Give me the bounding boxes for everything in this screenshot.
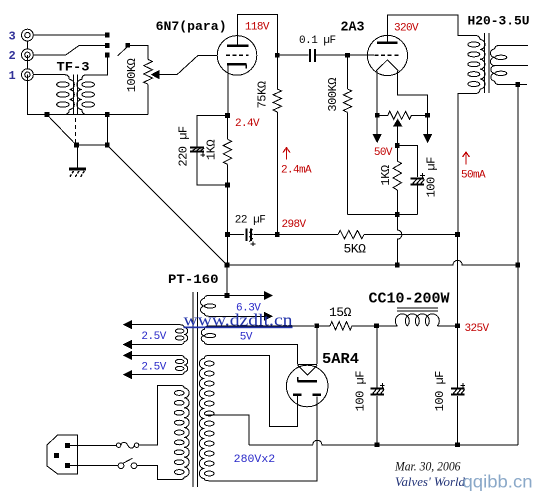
wire 2.5V-2 bottom bbox=[131, 374, 180, 376]
junction selector contact 2 bbox=[105, 43, 110, 48]
junction ground rail left end bbox=[225, 263, 230, 268]
label 1K 2A3 bbox=[379, 165, 393, 185]
label CC10-200W bbox=[369, 290, 450, 307]
wire cathode net to ground rail hop over 5K wire bbox=[397, 217, 402, 263]
wire grid node to 300K bbox=[347, 58, 349, 89]
heater arrow 6.3V bottom bbox=[264, 313, 272, 321]
5AR4 anode left bbox=[293, 394, 302, 396]
svg-text:100KΩ: 100KΩ bbox=[125, 58, 139, 92]
fuse bbox=[116, 442, 138, 448]
wire 6.3V top to arrow bbox=[209, 295, 264, 297]
svg-text:100 µF: 100 µF bbox=[433, 371, 447, 412]
svg-text:325V: 325V bbox=[465, 323, 490, 335]
wire 15R to filter node bbox=[352, 325, 374, 327]
wire pot bottom bbox=[147, 84, 149, 114]
wire HV top to 5AR4 left anode bbox=[209, 355, 297, 426]
TF-3 primary winding bbox=[57, 75, 75, 115]
svg-text:2.5V: 2.5V bbox=[141, 362, 166, 374]
svg-text:100 µF: 100 µF bbox=[425, 157, 439, 198]
wire 5V top to rectifier output node bbox=[209, 325, 314, 327]
label 100uF 2A3 bbox=[425, 157, 439, 198]
junction rectifier output node bbox=[314, 323, 319, 328]
PT core bbox=[193, 292, 198, 487]
label 2.4mA bbox=[281, 165, 312, 177]
svg-text:Valves' World: Valves' World bbox=[395, 475, 466, 489]
capacitor 0.1uF bbox=[310, 49, 315, 62]
junction ground node TF-3 bbox=[105, 143, 110, 148]
input jack 2 bbox=[22, 49, 34, 61]
OPT secondary winding bbox=[490, 45, 506, 84]
svg-text:qqibb.cn: qqibb.cn bbox=[463, 472, 533, 492]
wire wiper to 6N7 grid bbox=[159, 55, 218, 74]
wire choke to 325V node bbox=[437, 325, 455, 327]
label H20-3.5U bbox=[468, 13, 530, 28]
5AR4 filament bbox=[298, 365, 317, 376]
TF-3 secondary winding bbox=[77, 75, 95, 115]
capacitor 22uF bbox=[247, 228, 256, 246]
wire ground right riser bbox=[517, 267, 519, 445]
watermark www.dzdlt.cn bbox=[184, 311, 294, 330]
input jack 1 bbox=[22, 69, 34, 81]
wire ground return rail hop over right anode bbox=[249, 440, 518, 445]
wire 1K bottom bbox=[227, 164, 229, 182]
svg-text:298V: 298V bbox=[282, 219, 307, 231]
wire 22uF left bbox=[230, 234, 244, 236]
capacitor filter 100uF 2 bbox=[451, 383, 465, 395]
wire 5V bottom to 5AR4 filament bbox=[209, 345, 298, 365]
wire 50V node to bypass cap bbox=[400, 146, 418, 177]
junction TF-3 secondary bottom bbox=[105, 112, 110, 117]
junction 2A3 grid node bbox=[345, 53, 350, 58]
label input 3 bbox=[9, 30, 16, 44]
tube 5AR4 envelope bbox=[286, 365, 328, 407]
wire OPT primary bottom to B+ bbox=[458, 94, 475, 233]
label 118V bbox=[245, 21, 270, 33]
heater arrow 6.3V top bbox=[264, 292, 272, 300]
svg-text:100 µF: 100 µF bbox=[353, 371, 367, 412]
hum balance pot bbox=[380, 111, 426, 119]
filament arrow 2.5V-1 top bbox=[124, 321, 132, 329]
wire ground diagonal to rail bbox=[109, 146, 227, 264]
wire OPT secondary tap top bbox=[500, 44, 528, 46]
wire rectifier node to 15R bbox=[319, 325, 330, 327]
wire 5K to B+ node bbox=[364, 234, 455, 236]
wire coupling cap to 2A3 grid node bbox=[316, 54, 345, 56]
wire 50V node to 1K bbox=[396, 148, 398, 161]
label 50V bbox=[374, 147, 393, 159]
svg-text:1KΩ: 1KΩ bbox=[379, 165, 393, 185]
annotation date bbox=[394, 459, 461, 473]
svg-text:Mar. 30, 2006: Mar. 30, 2006 bbox=[394, 459, 461, 473]
wire 6N7 cathode lead bbox=[227, 66, 229, 114]
junction selector contact 1 bbox=[105, 53, 110, 58]
junction ground rail right bbox=[515, 263, 520, 268]
junction OPT secondary common bbox=[515, 82, 520, 87]
wire plate node to 75K bbox=[276, 58, 278, 89]
svg-text:220 µF: 220 µF bbox=[177, 126, 191, 167]
resistor 5K bbox=[338, 230, 364, 238]
wire input 3 to selector bbox=[33, 34, 105, 36]
wire filter cap 1 top lead bbox=[376, 328, 378, 387]
junction selector pivot bbox=[125, 43, 130, 48]
annotation arrow 50mA bbox=[463, 152, 470, 165]
svg-text:75KΩ: 75KΩ bbox=[256, 81, 270, 108]
label 2A3 bbox=[341, 19, 365, 35]
wire TF-3 secondary bottom to ground node bbox=[106, 117, 108, 144]
2A3 filament bbox=[376, 60, 398, 71]
wire OPT secondary common to ground rail bbox=[517, 87, 519, 263]
svg-text:www.dzdlt.cn: www.dzdlt.cn bbox=[184, 311, 294, 330]
resistor 75K bbox=[273, 89, 281, 112]
5AR4 anode right bbox=[312, 394, 321, 396]
junction 6N7 plate node bbox=[275, 53, 280, 58]
wire cathode node to 1K bbox=[227, 118, 229, 139]
wire 6.3V bottom to arrow bbox=[209, 315, 264, 317]
svg-text:CC10-200W: CC10-200W bbox=[369, 290, 450, 307]
label 2.5V second bbox=[141, 362, 166, 374]
svg-text:5KΩ: 5KΩ bbox=[344, 241, 367, 256]
tube 2A3 envelope bbox=[367, 35, 407, 75]
wire 75K to 298V node bbox=[276, 112, 278, 232]
capacitor 100uF 2A3 bbox=[411, 173, 425, 184]
junction 298V node bbox=[275, 232, 280, 237]
wire plug neutral to switch bbox=[70, 465, 118, 467]
wire 6N7 plate to top rail bbox=[238, 14, 278, 52]
label PT-160 bbox=[168, 272, 219, 287]
svg-text:2A3: 2A3 bbox=[341, 19, 365, 35]
wire TF-3 bottom bus bbox=[46, 114, 148, 116]
hum pot wiper arrow bbox=[394, 120, 402, 127]
svg-text:3: 3 bbox=[9, 30, 16, 44]
label 325V bbox=[465, 323, 490, 335]
capacitor 220uF bbox=[190, 148, 205, 158]
label 100K bbox=[125, 58, 139, 92]
potentiometer 100K bbox=[144, 59, 153, 84]
svg-text:2: 2 bbox=[9, 49, 16, 63]
label input 1 bbox=[9, 69, 16, 83]
wire ground rail bbox=[229, 260, 515, 265]
OPT core bbox=[485, 33, 490, 93]
label 100uF filter 1 bbox=[353, 371, 367, 412]
wire 2A3 filament right bbox=[397, 71, 427, 113]
selector switch arm bbox=[118, 47, 127, 56]
wire primary top to fuse bbox=[139, 385, 180, 445]
svg-text:2.4V: 2.4V bbox=[235, 118, 260, 130]
svg-text:280Vx2: 280Vx2 bbox=[234, 454, 276, 466]
label 15R bbox=[329, 305, 352, 320]
wire 1K to cathode net bbox=[396, 190, 398, 212]
wire cathode column bbox=[227, 187, 229, 232]
2A3 grid bbox=[375, 54, 399, 56]
wire 2A3 filament left bbox=[376, 71, 378, 113]
capacitor filter 100uF 1 bbox=[370, 383, 384, 395]
junction 6N7 cathode node bbox=[225, 113, 230, 118]
junction B+ 325V node bbox=[455, 323, 460, 328]
PT 2.5V winding 1 bbox=[175, 325, 188, 345]
label 6.3V bbox=[236, 302, 261, 314]
svg-text:320V: 320V bbox=[394, 22, 419, 34]
wire HV bottom to 5AR4 right anode bbox=[209, 396, 317, 481]
svg-text:1KΩ: 1KΩ bbox=[205, 140, 219, 160]
wire cathode net bottom bbox=[348, 214, 418, 216]
wire ground rail to heater winding bbox=[226, 267, 228, 293]
annotation arrow 2.4mA bbox=[283, 148, 290, 160]
label 2.4V bbox=[235, 118, 260, 130]
wire ground link bbox=[79, 144, 105, 146]
power switch bbox=[118, 458, 137, 468]
svg-text:300KΩ: 300KΩ bbox=[326, 78, 340, 112]
watermark qqibb.cn bbox=[463, 472, 533, 492]
label 75K bbox=[256, 81, 270, 108]
label 22uF bbox=[235, 214, 266, 226]
tube 6N7 envelope bbox=[217, 36, 257, 76]
junction 2A3 filament left bbox=[375, 113, 380, 118]
junction ground rail 2A3 return bbox=[395, 263, 400, 268]
capacitor 220uF branch wires bbox=[197, 115, 225, 185]
TF-3 core bbox=[74, 75, 78, 116]
svg-text:PT-160: PT-160 bbox=[168, 272, 219, 287]
wire primary bottom to switch bbox=[137, 466, 180, 480]
resistor 15R bbox=[330, 322, 352, 330]
wire TF-3 primary bottom diagonal to ground bbox=[49, 116, 76, 144]
PT primary winding bbox=[174, 385, 189, 479]
label input 2 bbox=[9, 49, 16, 63]
svg-text:5V: 5V bbox=[240, 332, 253, 344]
junction heater winding top bbox=[225, 293, 230, 298]
wire 2A3 plate to OPT primary bbox=[388, 15, 481, 43]
label 5K bbox=[344, 241, 367, 256]
label 5AR4 bbox=[322, 351, 359, 368]
junction 50V node bbox=[395, 143, 400, 148]
wire 300K to cathode net bbox=[347, 112, 349, 214]
junction selector contact 3 bbox=[105, 33, 110, 38]
label 298V bbox=[282, 219, 307, 231]
PT 5V winding bbox=[201, 326, 215, 345]
PT HV winding bbox=[199, 355, 214, 480]
junction cathode net bbox=[395, 212, 400, 217]
junction filter cap 1 top bbox=[374, 323, 379, 328]
svg-text:H20-3.5U: H20-3.5U bbox=[468, 13, 530, 28]
6N7 grid bbox=[226, 54, 249, 56]
6N7 plate bbox=[227, 44, 249, 47]
wire rectifier node to 5AR4 filament bbox=[316, 328, 318, 364]
label 6N7(para) bbox=[156, 19, 227, 34]
power plug bbox=[47, 435, 78, 474]
wire filter node to choke bbox=[379, 325, 397, 327]
wire TF-3 secondary top to selector contact 1 bbox=[87, 57, 108, 74]
svg-text:50V: 50V bbox=[374, 147, 393, 159]
label 320V bbox=[394, 22, 419, 34]
6N7 cathode bbox=[227, 64, 247, 68]
svg-text:118V: 118V bbox=[245, 21, 270, 33]
wire HV center tap to ground return bbox=[206, 415, 249, 445]
choke CC10-200W bbox=[395, 308, 439, 326]
label 2.5V first bbox=[141, 331, 166, 343]
pot wiper arrow bbox=[152, 71, 159, 79]
filament arrow 2.5V-1 bottom bbox=[124, 341, 132, 349]
label 50mA bbox=[461, 170, 486, 182]
junction filter 1 ground bbox=[375, 442, 380, 447]
svg-text:TF-3: TF-3 bbox=[57, 60, 90, 75]
wire plate node to coupling cap bbox=[280, 54, 309, 56]
wire 298V to 5K bbox=[280, 234, 338, 236]
wire input 2 to selector bbox=[33, 46, 105, 55]
wire input 1 to TF-3 primary bbox=[33, 74, 64, 76]
wire filter cap 1 bottom lead bbox=[376, 396, 378, 443]
svg-text:15Ω: 15Ω bbox=[329, 305, 352, 320]
svg-text:2.5V: 2.5V bbox=[141, 331, 166, 343]
svg-text:1: 1 bbox=[9, 69, 16, 83]
svg-text:5AR4: 5AR4 bbox=[322, 351, 359, 368]
resistor 1K 2A3 bbox=[393, 161, 401, 190]
junction TF-3 primary bottom bbox=[45, 112, 50, 117]
PT 2.5V winding 2 bbox=[175, 355, 188, 374]
filament arrow 2.5V-2 bottom bbox=[124, 371, 132, 379]
wire plug line to fuse bbox=[70, 444, 116, 446]
wire grid node to 2A3 grid bbox=[350, 54, 374, 56]
wire jack ground bus bbox=[27, 41, 46, 115]
wire bypass cap to cathode net bbox=[416, 186, 418, 215]
wire B+ to choke output bbox=[457, 237, 459, 323]
TF-3 shield dashed bbox=[75, 118, 77, 143]
junction B+ OPT node bbox=[455, 232, 460, 237]
wire 2.5V-1 top bbox=[131, 324, 180, 326]
5AR4 cathode bbox=[298, 377, 317, 381]
input jack 3 bbox=[22, 29, 34, 41]
wire 2.5V-1 bottom bbox=[131, 344, 180, 346]
label 220uF bbox=[177, 126, 191, 167]
wire 22uF right bbox=[253, 234, 275, 236]
junction ground point bbox=[74, 143, 79, 148]
wire filter cap 2 bottom lead bbox=[457, 396, 459, 443]
resistor 1K 6N7 bbox=[223, 139, 231, 164]
wire 2.5V-2 top bbox=[131, 354, 180, 356]
junction 2A3 filament right bbox=[425, 113, 430, 118]
label 1K 6N7 bbox=[205, 140, 219, 160]
ground symbol bbox=[69, 147, 86, 176]
wire OPT secondary tap mid bbox=[495, 65, 528, 67]
PT 6.3V winding bbox=[201, 296, 216, 317]
svg-text:6N7(para): 6N7(para) bbox=[156, 19, 227, 34]
junction 22uF node bbox=[225, 232, 230, 237]
resistor 300K bbox=[343, 89, 351, 112]
wire cathode column to ground rail bbox=[227, 237, 229, 263]
junction filter 2 ground bbox=[455, 442, 460, 447]
filament supply arrow right bbox=[424, 118, 432, 142]
svg-text:50mA: 50mA bbox=[461, 170, 486, 182]
transformer TF-3 label bbox=[57, 60, 90, 75]
svg-text:2.4mA: 2.4mA bbox=[281, 165, 312, 177]
2A3 plate bbox=[377, 41, 398, 44]
filament arrow 2.5V-2 top bbox=[124, 352, 132, 360]
watermark Valves World bbox=[395, 475, 466, 489]
wire wiper to 50V node bbox=[396, 126, 398, 143]
junction cathode bypass bottom bbox=[225, 183, 230, 188]
wire OPT secondary common bbox=[500, 84, 527, 86]
label 300K bbox=[326, 78, 340, 112]
label 5V bbox=[240, 332, 253, 344]
OPT primary winding bbox=[468, 40, 485, 94]
wire selector to volume pot bbox=[130, 45, 148, 59]
label 280Vx2 bbox=[234, 454, 276, 466]
svg-text:22 µF: 22 µF bbox=[235, 214, 266, 226]
svg-text:0.1 µF: 0.1 µF bbox=[299, 35, 336, 47]
label 100uF filter 2 bbox=[433, 371, 447, 412]
filament supply arrow left bbox=[373, 118, 381, 142]
wire filter cap 2 top lead bbox=[457, 328, 459, 387]
label 0.1uF bbox=[299, 35, 336, 47]
